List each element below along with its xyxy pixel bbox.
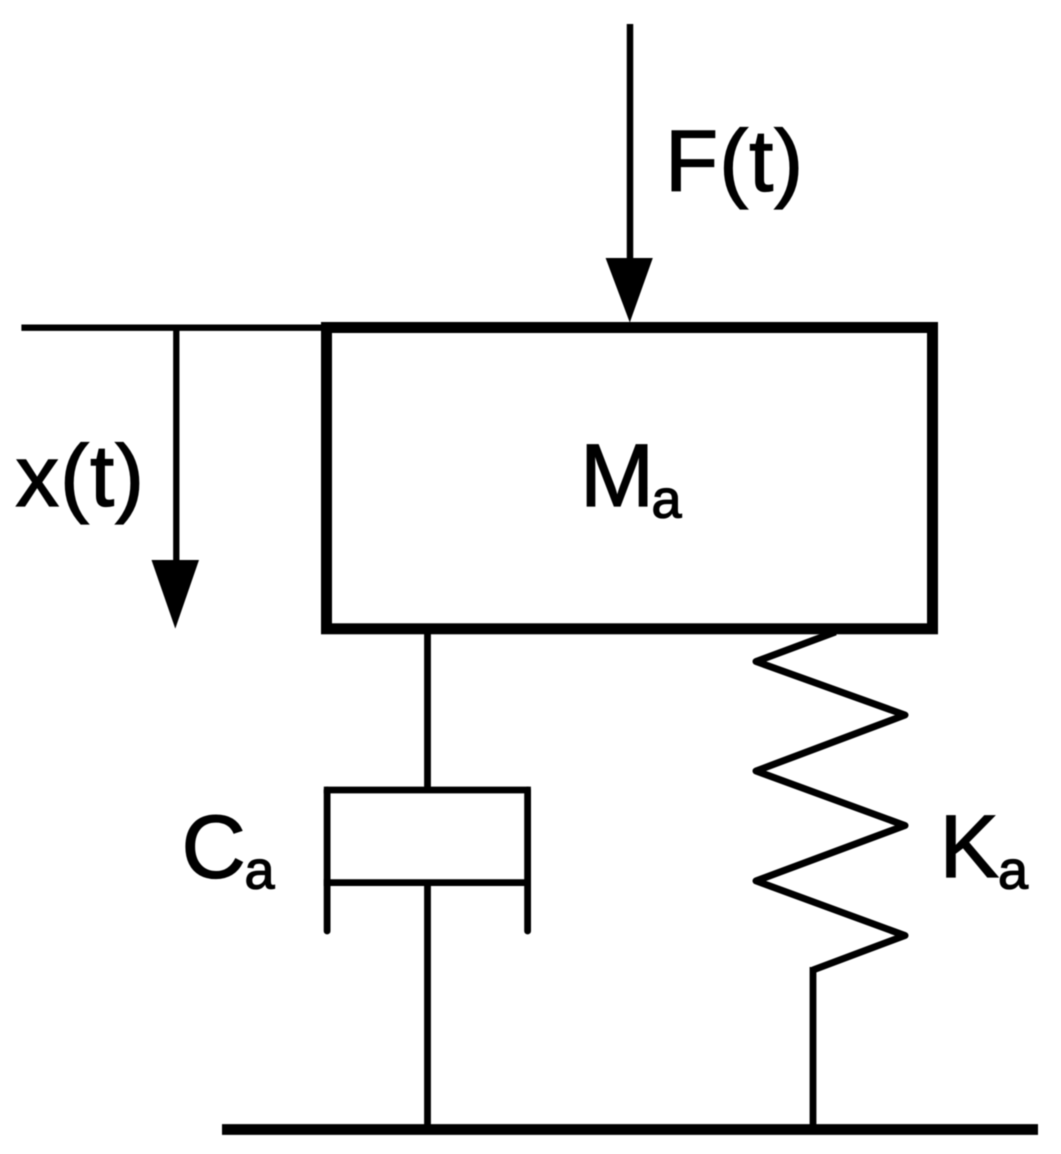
svg-text:C: C <box>182 797 246 897</box>
mass block Ma <box>327 328 933 629</box>
spring lower rod <box>810 967 817 1129</box>
damper piston plate <box>324 879 531 886</box>
svg-text:M: M <box>580 425 654 525</box>
ground line <box>222 1124 1038 1135</box>
svg-text:F(t): F(t) <box>665 113 804 210</box>
damper upper rod <box>424 630 431 793</box>
label F(t) <box>665 113 804 210</box>
damper lower rod <box>424 883 431 1129</box>
displacement arrow x(t) head <box>152 560 200 629</box>
force arrow F(t) shaft <box>627 24 634 265</box>
reference line (datum) <box>21 325 330 331</box>
damper cylinder top plate <box>324 787 531 794</box>
label Ca <box>182 797 276 901</box>
svg-text:a: a <box>998 841 1029 901</box>
svg-text:x(t): x(t) <box>16 428 146 525</box>
svg-text:K: K <box>940 796 999 896</box>
label Ma <box>580 425 683 530</box>
damper cylinder right wall <box>524 790 531 931</box>
label Ka <box>940 796 1030 901</box>
svg-text:a: a <box>245 841 276 901</box>
force arrow F(t) head <box>606 258 653 323</box>
damper cylinder left wall <box>324 790 331 931</box>
label x(t) <box>16 428 146 525</box>
svg-text:a: a <box>652 470 683 530</box>
spring Ka zigzag <box>756 632 905 970</box>
displacement arrow x(t) shaft <box>173 328 179 566</box>
